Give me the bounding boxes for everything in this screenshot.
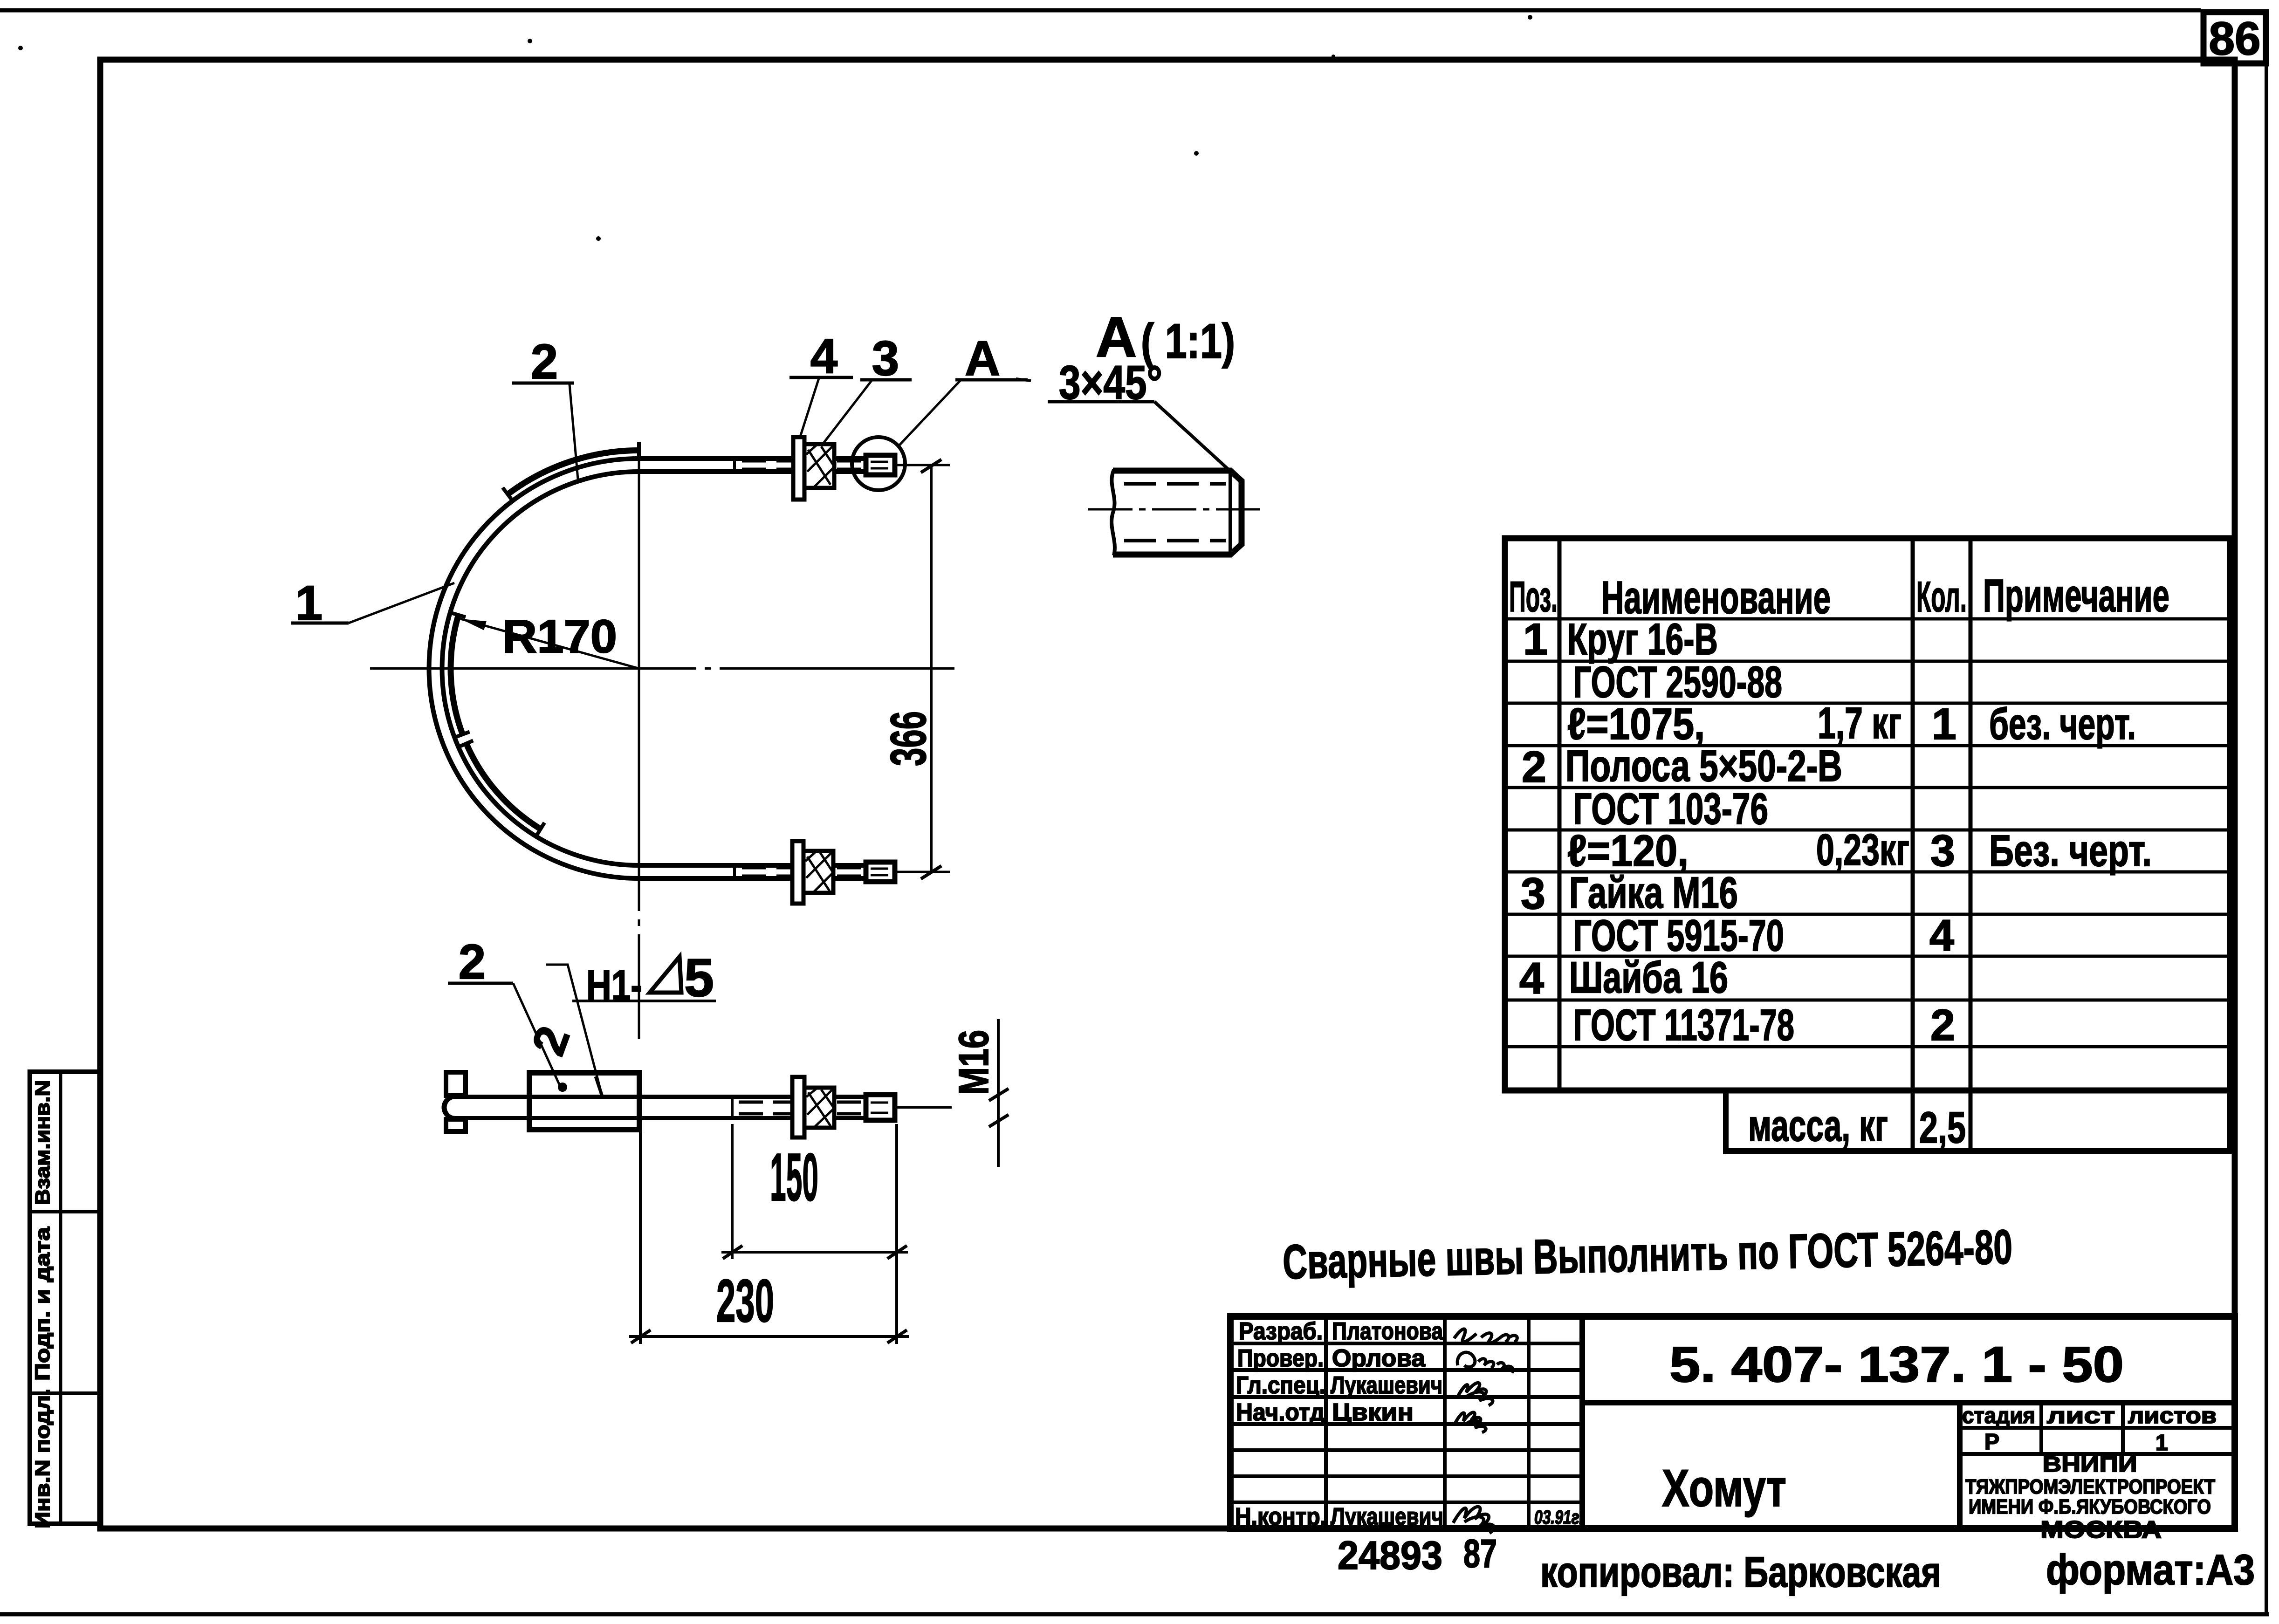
svg-text:масса, кг: масса, кг <box>1748 1101 1888 1151</box>
svg-text:листов: листов <box>2128 1404 2217 1428</box>
svg-text:Примечание: Примечание <box>1983 570 2169 621</box>
svg-text:Без. черт.: Без. черт. <box>1989 826 2152 876</box>
svg-text:стадия: стадия <box>1962 1404 2035 1428</box>
svg-text:1: 1 <box>1932 699 1956 749</box>
svg-text:03.91г.: 03.91г. <box>1534 1506 1583 1528</box>
svg-text:2: 2 <box>1522 742 1546 792</box>
svg-text:ВНИПИ: ВНИПИ <box>2043 1452 2137 1476</box>
svg-text:5: 5 <box>684 948 714 1008</box>
svg-text:4: 4 <box>1519 954 1544 1003</box>
svg-text:1: 1 <box>2155 1431 2168 1455</box>
svg-text:Разраб.: Разраб. <box>1239 1318 1323 1345</box>
svg-text:формат:А3: формат:А3 <box>2046 1546 2255 1594</box>
svg-text:Р: Р <box>1984 1430 1999 1454</box>
svg-text:Гл.спец.: Гл.спец. <box>1236 1372 1325 1399</box>
svg-text:копировал: Барковская: копировал: Барковская <box>1540 1549 1941 1596</box>
svg-text:без. черт.: без. черт. <box>1989 699 2136 749</box>
svg-text:Нач.отд: Нач.отд <box>1236 1399 1325 1426</box>
svg-text:Инв.N подл.: Инв.N подл. <box>31 1389 54 1528</box>
svg-text:Гайка М16: Гайка М16 <box>1569 868 1738 918</box>
svg-text:Н.контр.: Н.контр. <box>1235 1503 1326 1530</box>
svg-text:А: А <box>965 331 1000 386</box>
svg-text:М16: М16 <box>951 1030 997 1095</box>
svg-text:ТЯЖПРОМЭЛЕКТРОПРОЕКТ: ТЯЖПРОМЭЛЕКТРОПРОЕКТ <box>1965 1475 2215 1498</box>
svg-text:Подп. и дата: Подп. и дата <box>31 1227 54 1381</box>
svg-text:Поз.: Поз. <box>1509 573 1558 621</box>
svg-text:Круг 16-В: Круг 16-В <box>1567 615 1718 664</box>
svg-text:ГОСТ 11371-78: ГОСТ 11371-78 <box>1573 1000 1794 1050</box>
svg-text:Шайба 16: Шайба 16 <box>1569 953 1728 1002</box>
svg-text:лист: лист <box>2047 1404 2115 1428</box>
svg-text:2: 2 <box>1930 1000 1955 1050</box>
svg-text:Цвкин: Цвкин <box>1332 1399 1414 1426</box>
svg-text:230: 230 <box>716 1267 774 1335</box>
svg-text:0,23кг: 0,23кг <box>1816 825 1909 875</box>
svg-text:2: 2 <box>459 935 486 989</box>
svg-text:2,5: 2,5 <box>1919 1103 1966 1152</box>
svg-text:2: 2 <box>531 335 558 389</box>
svg-text:150: 150 <box>770 1139 818 1215</box>
svg-text:Лукашевич: Лукашевич <box>1331 1372 1442 1399</box>
svg-text:Взам.инв.N: Взам.инв.N <box>31 1080 54 1205</box>
svg-text:Лукашевич: Лукашевич <box>1331 1503 1443 1530</box>
svg-text:Кол.: Кол. <box>1916 573 1967 621</box>
svg-text:1,7 кг: 1,7 кг <box>1818 699 1901 748</box>
svg-text:Полоса 5×50-2-В: Полоса 5×50-2-В <box>1565 741 1842 791</box>
svg-text:Провер.: Провер. <box>1237 1345 1324 1372</box>
svg-text:Хомут: Хомут <box>1662 1459 1786 1517</box>
svg-text:366: 366 <box>880 711 936 766</box>
svg-text:ИМЕНИ Ф.Б.ЯКУБОВСКОГО: ИМЕНИ Ф.Б.ЯКУБОВСКОГО <box>1969 1495 2211 1518</box>
svg-text:5. 407- 137. 1 - 50: 5. 407- 137. 1 - 50 <box>1669 1336 2124 1392</box>
svg-text:3: 3 <box>1521 869 1545 918</box>
svg-text:1: 1 <box>1523 615 1548 664</box>
svg-text:МОСКВА: МОСКВА <box>2040 1516 2162 1543</box>
svg-text:R170: R170 <box>502 610 617 663</box>
svg-text:4: 4 <box>1929 911 1954 960</box>
svg-text:4: 4 <box>810 329 837 384</box>
svg-text:3: 3 <box>1930 826 1955 876</box>
svg-text:3: 3 <box>872 331 899 386</box>
svg-text:Орлова: Орлова <box>1332 1345 1426 1372</box>
svg-text:24893: 24893 <box>1338 1534 1442 1578</box>
svg-text:87: 87 <box>1463 1532 1497 1576</box>
svg-text:Платонова: Платонова <box>1332 1318 1443 1345</box>
